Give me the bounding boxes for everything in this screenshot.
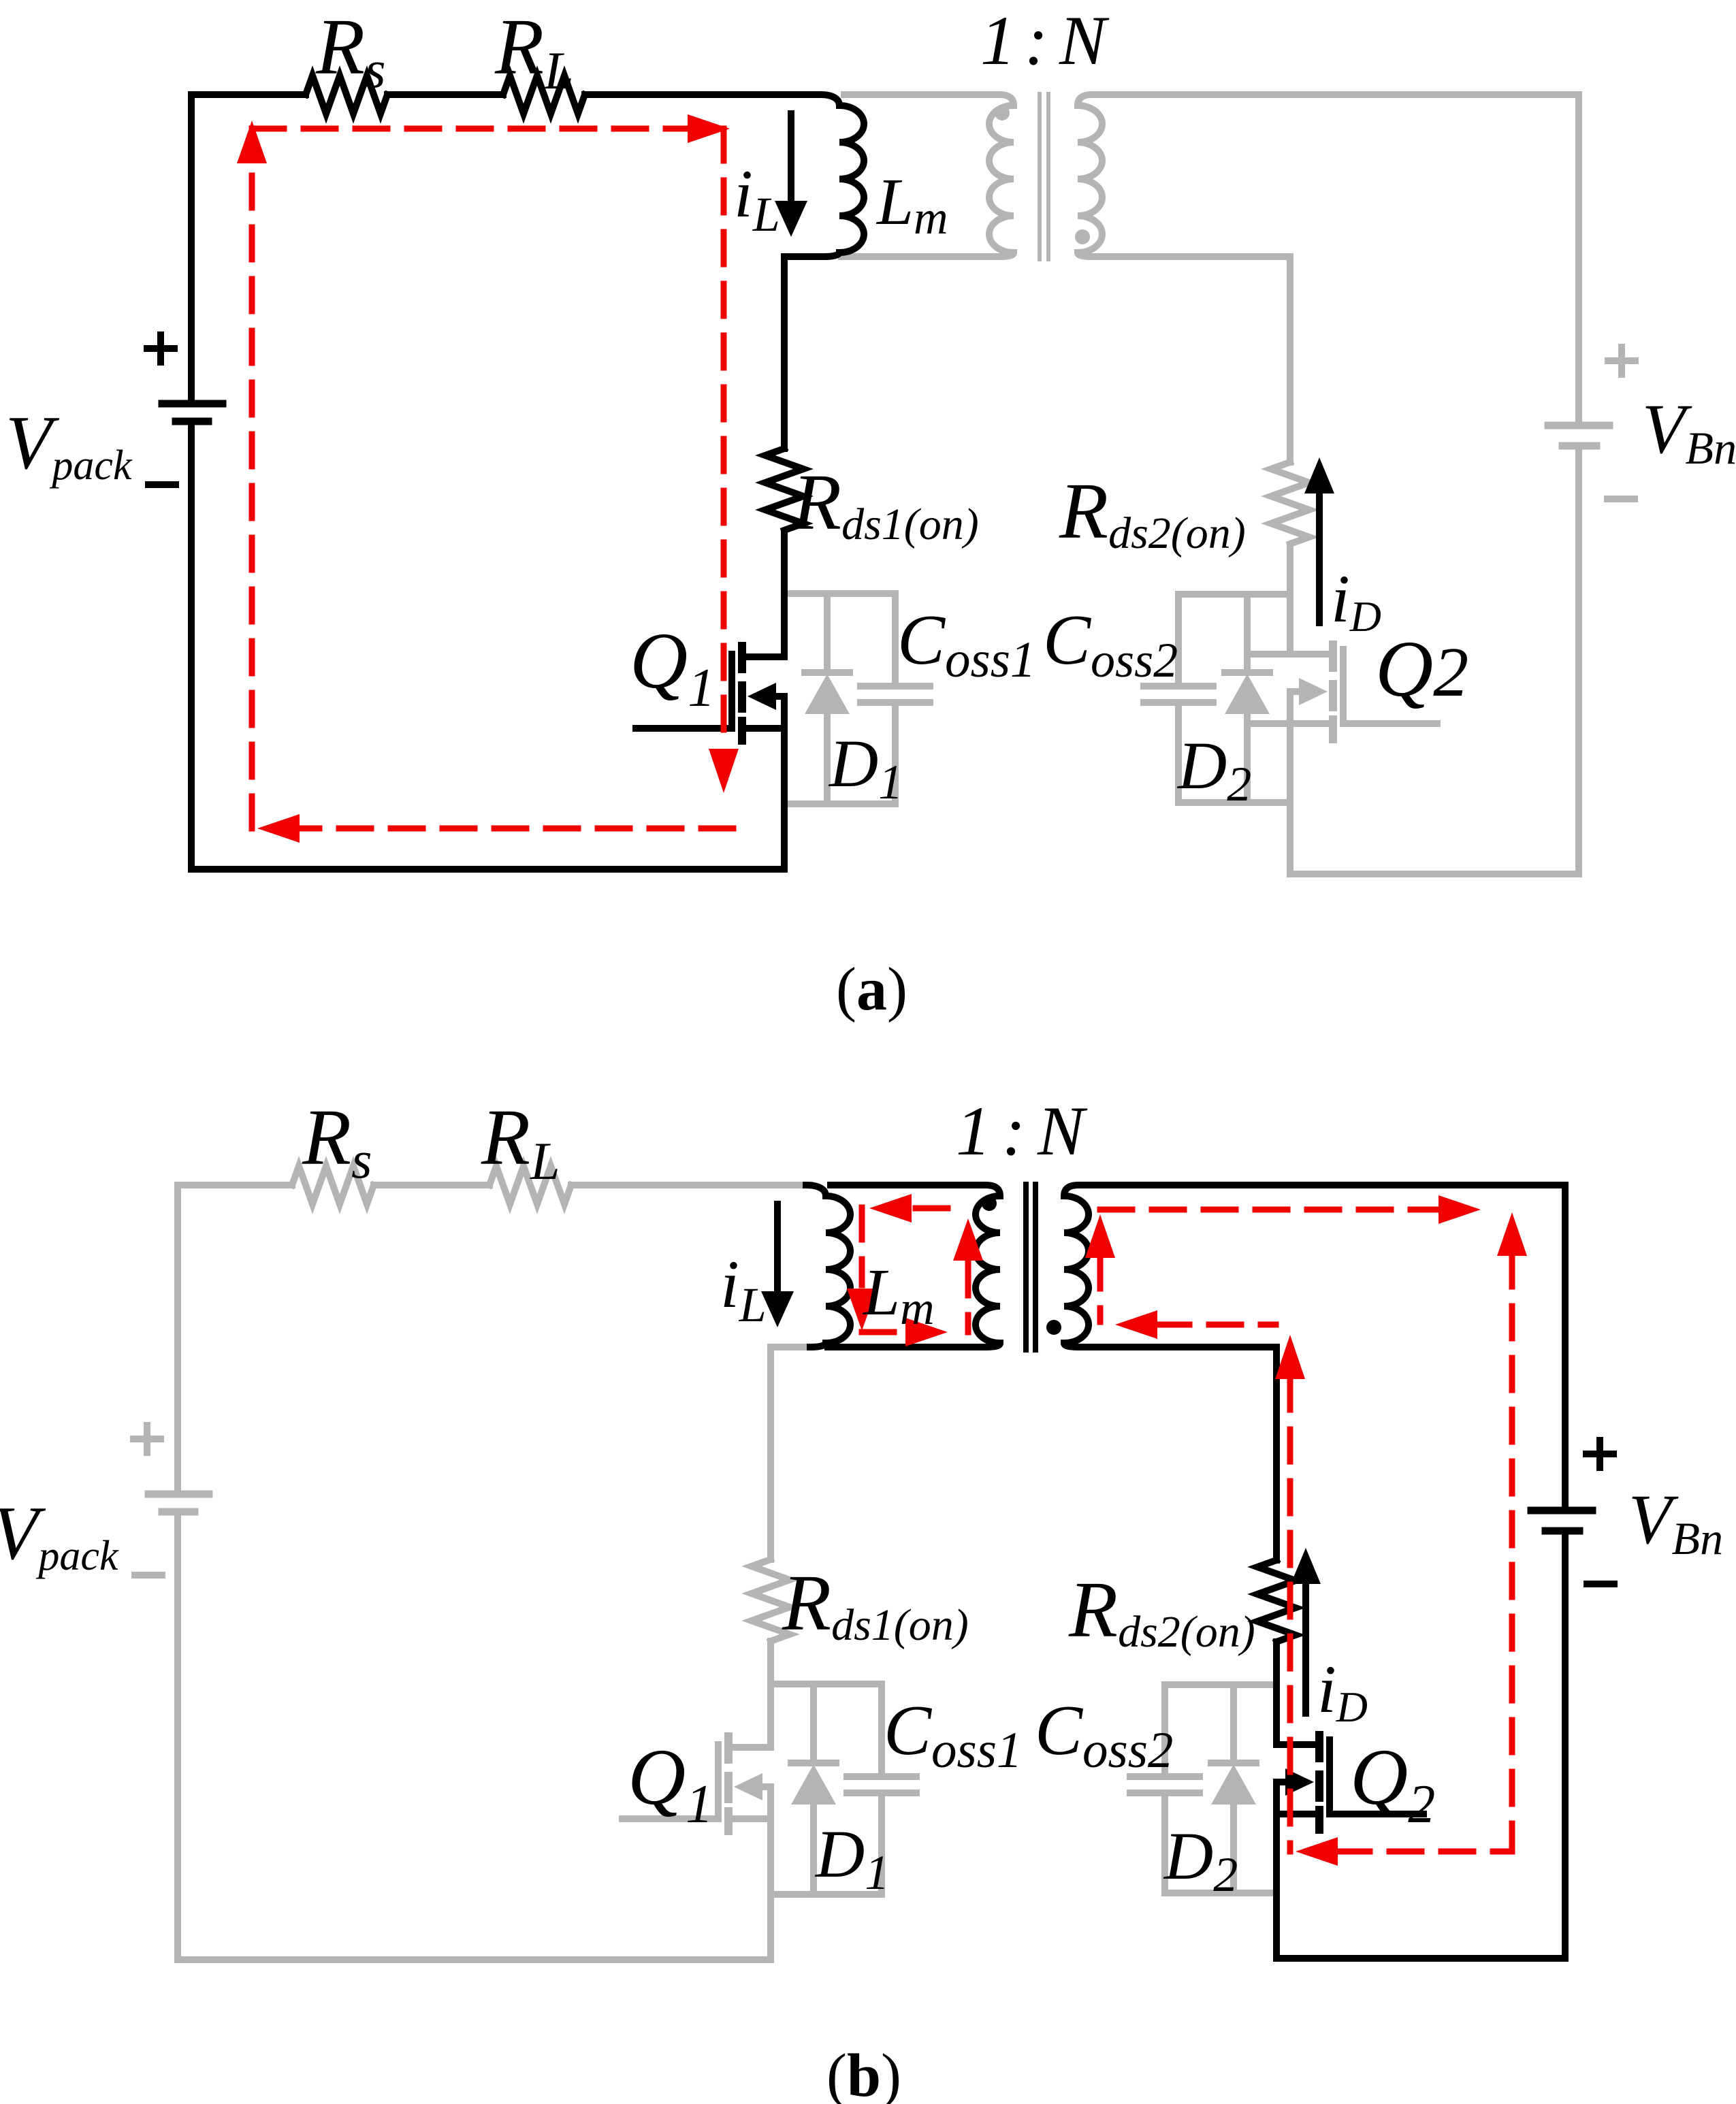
svg-text:D1: D1	[828, 726, 903, 809]
svg-text:Q1: Q1	[628, 1732, 713, 1834]
svg-text:Rds1(on): Rds1(on)	[782, 1558, 969, 1650]
svg-text:Vpack: Vpack	[0, 1491, 119, 1579]
svg-text:(b): (b)	[826, 2042, 901, 2104]
svg-text:1:N: 1:N	[980, 2, 1110, 80]
svg-text:RL: RL	[494, 2, 573, 100]
svg-text:Q2: Q2	[1350, 1732, 1435, 1834]
svg-text:D2: D2	[1176, 728, 1251, 811]
svg-text:Q1: Q1	[630, 616, 715, 718]
svg-text:Rds1(on): Rds1(on)	[792, 457, 979, 549]
svg-text:iD: iD	[1317, 1651, 1368, 1731]
svg-text:RL: RL	[481, 1093, 560, 1191]
svg-text:Coss1: Coss1	[897, 600, 1035, 688]
svg-text:VBn: VBn	[1628, 1480, 1723, 1564]
svg-text:VBn: VBn	[1642, 390, 1736, 474]
svg-text:Rds2(on): Rds2(on)	[1068, 1565, 1255, 1657]
svg-text:Coss1: Coss1	[884, 1690, 1022, 1779]
svg-text:Rs: Rs	[302, 1093, 372, 1189]
svg-text:1:N: 1:N	[956, 1093, 1088, 1170]
svg-text:iL: iL	[734, 156, 780, 242]
svg-text:Lm: Lm	[862, 1256, 935, 1335]
svg-text:Rs: Rs	[315, 2, 385, 99]
svg-text:(a): (a)	[836, 956, 907, 1023]
svg-text:Coss2: Coss2	[1043, 600, 1178, 687]
svg-text:D1: D1	[814, 1816, 889, 1900]
svg-text:iL: iL	[720, 1246, 767, 1332]
svg-text:Coss2: Coss2	[1035, 1690, 1173, 1779]
svg-text:Lm: Lm	[875, 165, 948, 244]
svg-text:Q2: Q2	[1375, 624, 1468, 713]
svg-text:Vpack: Vpack	[5, 401, 133, 489]
svg-text:Rds2(on): Rds2(on)	[1059, 466, 1246, 558]
svg-text:iD: iD	[1331, 561, 1381, 641]
svg-text:D2: D2	[1163, 1818, 1238, 1902]
